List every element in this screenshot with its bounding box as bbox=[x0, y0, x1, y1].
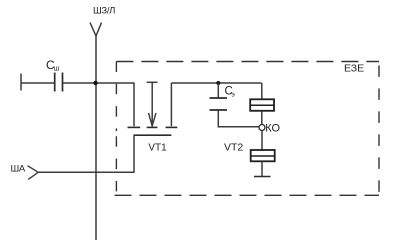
wire left input to Cш bbox=[21, 82, 54, 84]
svg-text:КО: КО bbox=[265, 122, 280, 134]
dashed box ЕЗЕ bbox=[115, 62, 380, 196]
node ША arrow bbox=[11, 164, 39, 180]
transistor VT2 upper section bbox=[250, 99, 274, 111]
wire node КО to VT2 lower bbox=[261, 131, 263, 151]
wire Cэ bottom to node КО bbox=[218, 111, 259, 127]
svg-text:ш: ш bbox=[54, 66, 60, 73]
svg-text:VT2: VT2 bbox=[224, 141, 243, 153]
svg-text:VT1: VT1 bbox=[148, 143, 167, 154]
wire ША horizontal bbox=[38, 171, 135, 173]
ground bbox=[254, 176, 271, 178]
capacitor Cэ bbox=[210, 83, 236, 110]
wire right branch down to VT2 upper bbox=[261, 83, 263, 99]
transistor VT2 lower section bbox=[224, 141, 275, 161]
label ШЗ/Л bbox=[93, 6, 115, 17]
label ЕЗЕ bbox=[344, 63, 364, 75]
junction dot on ШЗ/Л bus bbox=[93, 81, 97, 85]
transistor VT1 bbox=[128, 82, 178, 153]
wire Cш to junction bbox=[63, 82, 135, 84]
svg-text:э: э bbox=[232, 92, 236, 99]
junction dot at Cэ bbox=[216, 81, 220, 85]
wire VT2 lower to ground bbox=[261, 161, 263, 176]
svg-text:ШЗ/Л: ШЗ/Л bbox=[93, 6, 115, 17]
svg-text:ША: ША bbox=[11, 164, 26, 175]
terminal tick left input bbox=[20, 74, 22, 91]
capacitor Cш bbox=[46, 58, 63, 92]
wire VT1 drain to right branch bbox=[171, 82, 261, 84]
svg-text:ЕЗЕ: ЕЗЕ bbox=[344, 63, 364, 75]
wire VT2 upper to node КО bbox=[261, 111, 263, 125]
node ШЗ/Л arrow bbox=[90, 23, 102, 37]
node КО bbox=[259, 122, 280, 134]
wire VT1 source down bbox=[133, 135, 135, 172]
wire ШЗ/Л bus vertical bbox=[95, 36, 97, 240]
